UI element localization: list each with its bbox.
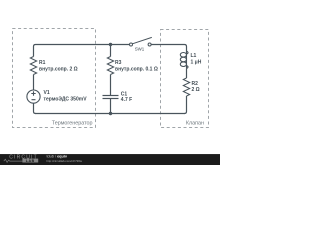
dashed box Термогенератор [13,29,96,128]
wire L1 to R2 [186,69,188,78]
footer bar [0,154,220,165]
svg-text:1 μH: 1 μH [191,59,202,65]
resistor R2 [183,78,189,96]
switch SW1 [130,37,152,46]
resistor R1 [30,57,36,75]
svg-text:термоЭДС 350mV: термоЭДС 350mV [44,96,88,102]
svg-text:R1: R1 [39,60,46,66]
svg-text:V1: V1 [44,90,50,96]
logo CircuitLab [4,154,38,163]
wire bottom rail [35,113,185,115]
wire top rail left [34,45,130,57]
svg-text:LAB: LAB [26,159,35,163]
wire V1 to bottom rail [34,103,36,113]
svg-text:R3: R3 [115,60,122,66]
svg-text:2 Ω: 2 Ω [192,87,200,93]
svg-text:4.7 F: 4.7 F [121,97,132,103]
wire middle branch upper [110,45,112,57]
source V1 [27,90,40,103]
svg-text:Термогенератор: Термогенератор [52,121,93,127]
inductor L1 [180,51,188,69]
wire top rail right [151,45,186,52]
svg-text:внутр.сопр. 0.1 Ω: внутр.сопр. 0.1 Ω [115,67,158,73]
node junction bottom [109,112,112,115]
svg-text:tdu6 / equiv: tdu6 / equiv [47,154,68,158]
wire C1 to bottom rail [110,99,112,114]
svg-text:L1: L1 [191,53,197,59]
dashed box Клапан [161,30,209,128]
resistor R3 [107,57,113,75]
wire R2 to bottom rail [185,96,187,114]
wire R1 to V1 [33,75,35,91]
wire R3 to C1 [110,75,112,96]
capacitor C1 [103,96,119,99]
node junction top [109,43,112,46]
svg-text:http://circuitlab.com/c/rt736w: http://circuitlab.com/c/rt736w [47,159,83,163]
svg-text:SW1: SW1 [135,46,145,51]
svg-text:Клапан: Клапан [186,121,204,127]
svg-text:внутр.сопр. 2 Ω: внутр.сопр. 2 Ω [39,67,78,73]
